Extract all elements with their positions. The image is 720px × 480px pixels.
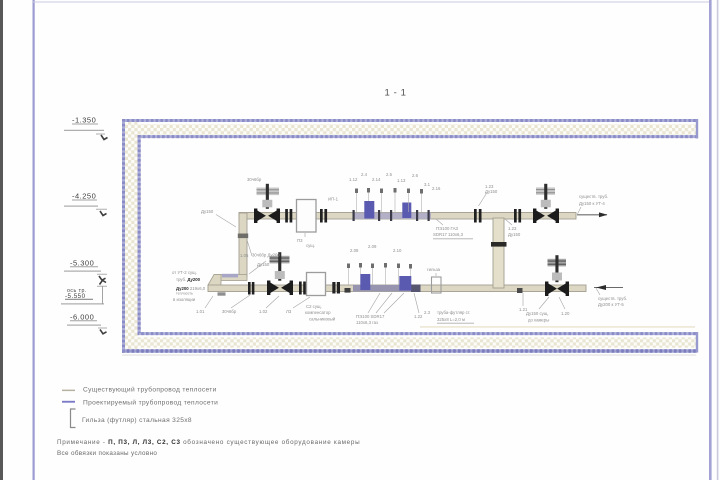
svg-text:компенсатор: компенсатор (305, 310, 331, 315)
svg-text:1.05: 1.05 (240, 253, 249, 258)
flange pair F2 (320, 209, 327, 223)
riser flange (238, 234, 248, 239)
svg-text:2.10: 2.10 (393, 248, 402, 253)
svg-text:1.01: 1.01 (196, 309, 205, 314)
svg-text:2.5: 2.5 (386, 172, 393, 177)
svg-text:3.1: 3.1 (424, 182, 431, 187)
legend existing pipeline (62, 390, 75, 392)
small gate box on lower pipe (432, 277, 442, 293)
legend projected pipeline (62, 401, 75, 403)
frame vertical line left (33, 0, 35, 480)
svg-text:Ду150: Ду150 (485, 189, 498, 194)
riser from upper pipe (239, 213, 247, 277)
svg-text:от УТ-2 сущ.: от УТ-2 сущ. (172, 270, 197, 275)
svg-text:30ч6бр: 30ч6бр (247, 177, 262, 182)
svg-text:до камеры: до камеры (528, 318, 549, 323)
svg-text:Ду150: Ду150 (508, 232, 521, 237)
svg-text:Ду200 к УТ-5: Ду200 к УТ-5 (598, 302, 624, 307)
lower pipe run (208, 285, 586, 292)
svg-text:2.16: 2.16 (432, 186, 441, 191)
svg-text:Ду150 к УТ-4: Ду150 к УТ-4 (579, 201, 605, 206)
frame vertical line far right (717, 0, 719, 480)
svg-text:П3: П3 (297, 238, 303, 243)
frame vertical line right (709, 0, 712, 480)
lower tick row (347, 263, 412, 269)
svg-text:2.6: 2.6 (412, 173, 419, 178)
equipment box E1 (297, 200, 317, 233)
legend sleeve symbol (71, 409, 76, 428)
dark blob near connector (517, 288, 523, 293)
svg-text:2.3: 2.3 (424, 310, 431, 315)
valve V3 lower-left (267, 252, 293, 295)
svg-text:Ду150: Ду150 (201, 209, 214, 214)
wall right end caps (696, 119, 698, 139)
svg-text:1.02: 1.02 (259, 309, 268, 314)
svg-text:ПЭ100 SDR17: ПЭ100 SDR17 (356, 314, 385, 319)
svg-text:Ду200 219х6,0: Ду200 219х6,0 (176, 286, 206, 291)
svg-text:-1.350: -1.350 (72, 116, 96, 125)
svg-text:110х6,3 газ: 110х6,3 газ (356, 320, 378, 325)
upper pipe run (239, 213, 576, 220)
dark text blob (345, 288, 351, 293)
elbow drop piece (208, 275, 221, 292)
svg-text:Гильза (футляр) стальная 325х8: Гильза (футляр) стальная 325х8 (82, 417, 192, 424)
blue valve BV3 (360, 274, 370, 290)
wall left band (124, 119, 140, 352)
elbow stub to lower line (214, 275, 247, 281)
svg-text:-5.300: -5.300 (70, 259, 94, 268)
vertical connector pipe (493, 218, 504, 288)
svg-text:1.23: 1.23 (508, 226, 517, 231)
svg-text:2.14: 2.14 (372, 177, 381, 182)
leader lines (205, 193, 600, 314)
wall bottom band (122, 334, 698, 351)
svg-text:труба-футляр ст.: труба-футляр ст. (437, 310, 470, 315)
svg-text:Л3: Л3 (286, 309, 292, 314)
lower blue pipe section (353, 285, 421, 291)
svg-text:Ду150: Ду150 (257, 262, 270, 267)
flange pair F1 (285, 209, 292, 223)
blue valve BV1 (364, 201, 374, 219)
svg-text:сущ.: сущ. (306, 243, 315, 248)
svg-text:теплосеть: теплосеть (176, 292, 193, 296)
frame horizontal line top (33, 2, 710, 3)
svg-text:1.22: 1.22 (414, 314, 423, 319)
elevation marker -6.000 (67, 313, 107, 334)
svg-text:SDR17 110х6,3: SDR17 110х6,3 (433, 232, 464, 237)
valve V5 lower-right (545, 255, 569, 296)
svg-text:в изоляции: в изоляции (173, 297, 196, 302)
flange pair Fc (332, 282, 340, 294)
svg-text:существ. труб.: существ. труб. (598, 296, 627, 301)
flange pair F3 (474, 209, 482, 223)
equipment box E2 (307, 273, 326, 296)
svg-text:существ. труб.: существ. труб. (579, 194, 608, 199)
blue sleeve label on stub (222, 274, 238, 278)
svg-text:Существующий трубопровод тепло: Существующий трубопровод теплосети (83, 385, 217, 393)
valve V1 upper-left (254, 184, 280, 223)
svg-text:1.12: 1.12 (349, 177, 358, 182)
svg-text:ИП-1: ИП-1 (328, 197, 339, 202)
svg-text:325х8 L=2,0 м: 325х8 L=2,0 м (437, 317, 465, 322)
blue valve BV2 (402, 203, 411, 219)
connector flange (491, 242, 507, 247)
svg-text:-4.250: -4.250 (72, 192, 96, 201)
valve V2 upper-right (533, 184, 559, 223)
svg-text:ПЭ100 ГАЗ: ПЭ100 ГАЗ (436, 226, 458, 231)
svg-text:2.08: 2.08 (350, 248, 359, 253)
svg-text:Все обвязки показаны условно: Все обвязки показаны условно (57, 449, 157, 457)
svg-text:30ч6бр Ду200: 30ч6бр Ду200 (252, 253, 280, 258)
svg-text:2.09: 2.09 (368, 244, 377, 249)
elevation marker -5.550 (61, 280, 107, 304)
elevation marker -4.250 (64, 192, 107, 216)
svg-text:сальниковый: сальниковый (309, 317, 336, 322)
lower blue section dark cap (411, 285, 421, 293)
flange pair Fa (248, 282, 254, 295)
elevation marker -5.300 (64, 259, 107, 281)
svg-text:1 - 1: 1 - 1 (385, 88, 407, 99)
svg-text:30ч6бр: 30ч6бр (222, 309, 237, 314)
upper tick row (355, 188, 423, 194)
upper blue pipe section (353, 213, 431, 219)
blue valve BV4 (399, 276, 411, 291)
svg-text:Ду150 сущ.: Ду150 сущ. (526, 311, 549, 316)
svg-text:С2 сущ.: С2 сущ. (306, 304, 322, 309)
svg-text:2.4: 2.4 (361, 172, 368, 177)
lower exit arrow (594, 287, 623, 289)
elevation marker -1.350 (64, 116, 108, 140)
svg-text:-6.000: -6.000 (70, 313, 94, 322)
flange pair Fb (299, 282, 306, 295)
upper exit arrow (577, 214, 607, 216)
svg-text:1.13: 1.13 (397, 178, 406, 183)
svg-text:гильза: гильза (427, 267, 441, 272)
upper blue section flange ticks (353, 210, 430, 221)
wall top band (122, 121, 698, 137)
page left dark strip (0, 0, 3, 480)
svg-text:Примечание - П, П3, Л, Л3, С2,: Примечание - П, П3, Л, Л3, С2, С3 обозна… (57, 438, 360, 446)
flange pair F4 (514, 209, 521, 223)
svg-text:Проектируемый трубопровод тепл: Проектируемый трубопровод теплосети (83, 399, 218, 407)
small text blob under pipe start (218, 292, 226, 295)
svg-text:труб. Ду200: труб. Ду200 (176, 277, 201, 282)
svg-text:1.20: 1.20 (561, 311, 570, 316)
